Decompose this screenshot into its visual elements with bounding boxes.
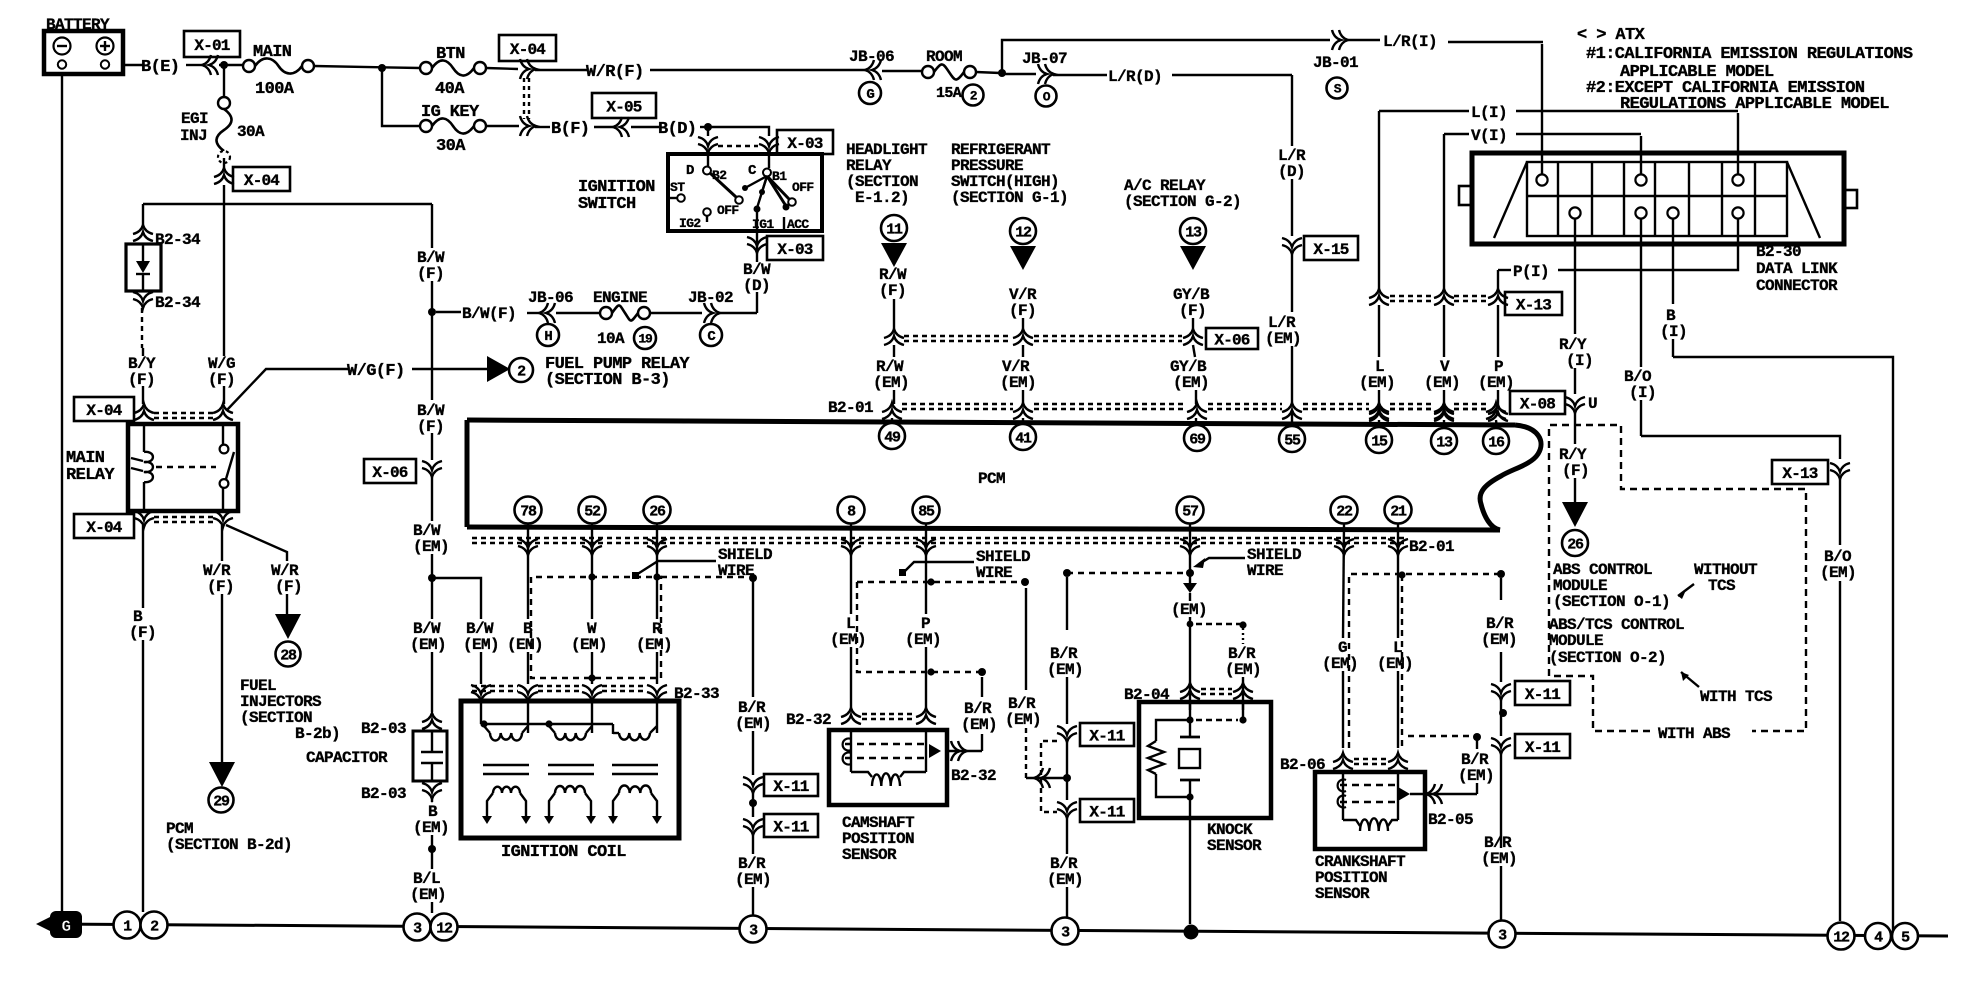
wire B/R shield drain xyxy=(752,580,754,697)
svg-text:X-04: X-04 xyxy=(86,402,122,420)
wire to B2-34 xyxy=(142,204,144,226)
wire V/R (EM) xyxy=(1022,345,1024,357)
connector B2-34 lower xyxy=(133,292,153,301)
svg-text:12: 12 xyxy=(1015,224,1032,241)
svg-text:TCS: TCS xyxy=(1708,577,1736,595)
ABS dashed boundary xyxy=(1549,425,1806,731)
rail node 4 xyxy=(1865,923,1891,949)
svg-text:28: 28 xyxy=(280,647,297,664)
svg-text:49: 49 xyxy=(884,429,901,446)
svg-text:3: 3 xyxy=(413,920,422,937)
svg-text:(EM): (EM) xyxy=(1424,374,1460,392)
svg-text:BATTERY: BATTERY xyxy=(46,16,110,34)
svg-text:X-01: X-01 xyxy=(194,37,229,55)
svg-text:X-08: X-08 xyxy=(1520,395,1555,413)
svg-text:(F): (F) xyxy=(129,624,156,642)
svg-text:X-04: X-04 xyxy=(86,519,122,537)
wire P pin85 xyxy=(925,524,927,614)
PCM pin 16 xyxy=(1483,428,1509,454)
ignition coil secondary 3 xyxy=(613,793,619,816)
svg-text:B2-03: B2-03 xyxy=(361,785,406,803)
wire B/O (EM) xyxy=(1839,478,1841,545)
svg-text:57: 57 xyxy=(1182,503,1198,520)
connector JB-02 xyxy=(650,312,702,314)
svg-text:100A: 100A xyxy=(255,80,295,99)
crankshaft sensor internals xyxy=(1342,772,1344,820)
svg-text:11: 11 xyxy=(886,221,903,238)
wire GY/B (EM) xyxy=(1193,345,1195,357)
svg-text:WITH TCS: WITH TCS xyxy=(1700,688,1773,706)
wire horizontal bus y204 xyxy=(143,203,432,205)
wire B/Y to relay xyxy=(142,386,144,404)
wire B/W to capacitor xyxy=(431,578,433,619)
svg-text:CAPACITOR: CAPACITOR xyxy=(306,749,388,767)
svg-text:(F): (F) xyxy=(128,371,155,389)
svg-text:(EM): (EM) xyxy=(1322,655,1358,673)
svg-text:(F): (F) xyxy=(1179,302,1206,320)
dlc pin bottom 3 xyxy=(1667,207,1678,218)
svg-text:X-04: X-04 xyxy=(510,41,546,59)
svg-text:PCM: PCM xyxy=(978,470,1005,488)
wire B/W(D) xyxy=(756,292,758,313)
svg-text:MODULE: MODULE xyxy=(1549,632,1603,650)
svg-text:ROOM: ROOM xyxy=(926,48,962,66)
svg-text:G: G xyxy=(61,918,70,936)
fuse BTN 40A xyxy=(420,62,432,74)
svg-text:78: 78 xyxy=(520,503,537,520)
dashed option bracket xyxy=(1041,741,1057,812)
svg-text:MAIN: MAIN xyxy=(253,43,292,62)
wire W/G(F) branch xyxy=(227,369,348,410)
svg-text:21: 21 xyxy=(1390,503,1407,520)
svg-text:(EM): (EM) xyxy=(1820,564,1856,582)
fuse MAIN 100A xyxy=(243,60,255,72)
dlc pin bottom 1 xyxy=(1569,207,1580,218)
wire B/R right chain xyxy=(1500,578,1502,600)
wire R pin26 xyxy=(656,524,658,619)
svg-text:X-11: X-11 xyxy=(1525,686,1560,704)
svg-text:B/W(F): B/W(F) xyxy=(462,305,516,323)
connector X-06 xyxy=(364,459,416,483)
relay MAIN RELAY xyxy=(128,424,238,511)
svg-text:40A: 40A xyxy=(435,80,465,99)
wire L pin8 xyxy=(850,524,852,614)
fuse ROOM 15A xyxy=(922,66,934,78)
relay coil xyxy=(143,424,145,452)
knock sensor ground wire xyxy=(1189,818,1191,924)
svg-text:WIRE: WIRE xyxy=(1247,562,1283,580)
svg-text:X-03: X-03 xyxy=(787,135,822,153)
svg-text:10A: 10A xyxy=(597,330,625,348)
battery B+ terminal block xyxy=(44,31,123,74)
wire B/W(F) right xyxy=(436,311,461,313)
svg-text:P(I): P(I) xyxy=(1513,263,1549,281)
svg-text:(EM): (EM) xyxy=(413,819,449,837)
connector B2-03 lower xyxy=(422,783,442,792)
svg-text:B2-32: B2-32 xyxy=(951,767,996,785)
svg-text:SENSOR: SENSOR xyxy=(1315,885,1370,903)
connector X-11 a xyxy=(743,777,763,786)
svg-text:B2-01: B2-01 xyxy=(1409,538,1454,556)
svg-text:4: 4 xyxy=(1874,929,1883,946)
PCM pin 69 xyxy=(1184,425,1210,451)
rail node 3a xyxy=(404,914,431,941)
svg-text:22: 22 xyxy=(1336,503,1353,520)
fuse ENGINE 10A xyxy=(600,307,612,319)
svg-text:WIRE: WIRE xyxy=(976,564,1012,582)
svg-text:W/G(F): W/G(F) xyxy=(347,362,405,381)
wire W/G xyxy=(223,204,225,356)
diode D1 xyxy=(126,244,161,291)
PCM pin 8 xyxy=(838,497,865,524)
dlc pin bottom 4 xyxy=(1732,207,1743,218)
wire B(F) to ground rail xyxy=(142,525,144,608)
svg-text:(EM): (EM) xyxy=(1000,374,1036,392)
rail junction dot xyxy=(1184,925,1199,940)
svg-text:JB-02: JB-02 xyxy=(688,289,733,307)
svg-text:JB-06: JB-06 xyxy=(849,48,894,66)
svg-text:BTN: BTN xyxy=(436,45,465,64)
wire L/R(D) down xyxy=(1291,75,1293,146)
arrow 26 ABS xyxy=(1562,502,1588,527)
svg-text:G: G xyxy=(866,87,874,103)
svg-text:EGI: EGI xyxy=(181,110,208,128)
svg-text:30A: 30A xyxy=(237,123,265,141)
svg-text:(EM): (EM) xyxy=(410,636,446,654)
dlc pin bottom 2 xyxy=(1635,207,1646,218)
svg-text:(EM): (EM) xyxy=(1005,711,1041,729)
wire V (EM) xyxy=(1443,134,1445,290)
svg-text:SWITCH: SWITCH xyxy=(578,195,636,214)
ignition coil secondary 1 xyxy=(487,793,493,816)
svg-text:(EM): (EM) xyxy=(1173,374,1209,392)
svg-text:B-2b): B-2b) xyxy=(295,725,340,743)
A/C node 13 xyxy=(1180,218,1206,244)
svg-text:(I): (I) xyxy=(1629,384,1656,402)
svg-text:X-13: X-13 xyxy=(1782,465,1817,483)
rail node 1 xyxy=(114,912,141,939)
wire L pin21 xyxy=(1397,524,1399,638)
wire L/R (EM) xyxy=(1291,252,1293,312)
connector X-04 (EGI) xyxy=(223,158,225,170)
ignition coil secondary 2 xyxy=(549,793,555,816)
svg-text:29: 29 xyxy=(213,793,230,810)
svg-text:(EM): (EM) xyxy=(413,538,449,556)
svg-text:B(D): B(D) xyxy=(658,120,696,139)
svg-text:OFF: OFF xyxy=(717,203,739,218)
svg-text:< > ATX: < > ATX xyxy=(1577,26,1646,45)
wire battery ground drop xyxy=(61,74,63,912)
labels L V P (EM) xyxy=(1378,305,1380,357)
svg-text:(F): (F) xyxy=(208,371,235,389)
connector X-11 b xyxy=(752,803,754,817)
svg-text:2: 2 xyxy=(517,363,526,380)
wire B(E) xyxy=(123,64,144,66)
svg-text:13: 13 xyxy=(1185,224,1202,241)
connector B2-01 row below PCM xyxy=(1407,539,1459,554)
relay contact dashed link xyxy=(156,466,216,468)
svg-text:69: 69 xyxy=(1189,431,1206,448)
svg-text:(EM): (EM) xyxy=(507,636,543,654)
ignition coil core 3 xyxy=(612,764,658,767)
wire B/W (EM) xyxy=(431,477,433,521)
wire V(I) xyxy=(1444,133,1469,135)
svg-text:19: 19 xyxy=(638,332,653,347)
svg-text:WIRE: WIRE xyxy=(718,562,754,580)
svg-text:15: 15 xyxy=(1371,433,1388,450)
svg-text:(EM): (EM) xyxy=(830,631,866,649)
svg-text:(EM): (EM) xyxy=(463,636,499,654)
svg-text:RELAY: RELAY xyxy=(66,466,115,485)
svg-text:1: 1 xyxy=(123,918,132,935)
svg-text:IG KEY: IG KEY xyxy=(421,103,480,122)
refrigerant node 12 xyxy=(1010,218,1036,244)
relay switch xyxy=(222,424,224,444)
svg-text:(EM): (EM) xyxy=(571,636,607,654)
wire IG KEY branch xyxy=(382,68,420,126)
rail node 3d xyxy=(1489,921,1516,948)
data link connector B2-30 xyxy=(1472,153,1844,244)
svg-text:(EM): (EM) xyxy=(1481,631,1517,649)
wire B (EM) xyxy=(431,796,433,802)
PCM pin 57 xyxy=(1177,497,1204,524)
svg-text:L/R(D): L/R(D) xyxy=(1108,68,1162,86)
svg-text:(EM): (EM) xyxy=(1359,374,1395,392)
connector X-03 upper xyxy=(698,137,718,146)
svg-text:(EM): (EM) xyxy=(1047,661,1083,679)
svg-text:X-03: X-03 xyxy=(777,241,812,259)
knock sensor internals xyxy=(1189,702,1191,720)
svg-text:ENGINE: ENGINE xyxy=(593,289,647,307)
arrow 29 PCM xyxy=(209,762,235,787)
wire W/R fuel injectors xyxy=(226,525,287,561)
svg-text:(I): (I) xyxy=(1660,323,1687,341)
svg-text:INJ: INJ xyxy=(180,127,207,145)
PCM pin 78 xyxy=(515,497,542,524)
svg-text:X-13: X-13 xyxy=(1516,296,1551,314)
wire B/R right to rail xyxy=(1500,753,1502,848)
fuse IG KEY 30A xyxy=(420,120,432,132)
svg-text:SENSOR: SENSOR xyxy=(1207,837,1262,855)
svg-text:X-06: X-06 xyxy=(372,464,407,482)
connector X-05 xyxy=(592,93,656,118)
svg-text:(F): (F) xyxy=(275,578,302,596)
wire B pin78 xyxy=(527,524,529,619)
PCM pin 21 xyxy=(1385,497,1412,524)
PCM pin 41 xyxy=(1010,424,1036,450)
svg-text:(EM): (EM) xyxy=(1171,601,1207,619)
svg-text:X-11: X-11 xyxy=(1525,739,1560,757)
svg-text:OFF: OFF xyxy=(792,180,814,195)
ignition coil core 1 xyxy=(483,764,529,767)
junction B(D) xyxy=(708,127,769,136)
wire top L/R(I) xyxy=(1002,40,1330,73)
PCM pin 52 xyxy=(579,497,606,524)
svg-text:IGNITION COIL: IGNITION COIL xyxy=(501,843,626,862)
svg-text:B(E): B(E) xyxy=(141,58,179,77)
svg-text:IG1: IG1 xyxy=(752,217,774,232)
connector row X-06 area xyxy=(884,336,904,345)
svg-text:X-05: X-05 xyxy=(606,98,641,116)
wire R/Y (F) xyxy=(1574,412,1576,444)
svg-text:DATA LINK: DATA LINK xyxy=(1756,260,1838,278)
dlc pin top 2 xyxy=(1635,174,1646,185)
ignition switch body xyxy=(668,154,822,231)
wire R/W (EM) xyxy=(893,345,895,357)
wire BTN to X-04 xyxy=(486,68,518,69)
svg-text:(EM): (EM) xyxy=(1478,374,1514,392)
wire to MAIN fuse xyxy=(219,64,243,66)
wire W pin52 xyxy=(591,524,593,577)
connector X-13 row xyxy=(1369,296,1389,305)
PCM pin 55 xyxy=(1279,426,1305,452)
svg-text:85: 85 xyxy=(918,503,935,520)
wire W/R to PCM arrow xyxy=(221,525,223,561)
PCM module box xyxy=(467,420,1515,425)
shield box ignition coil xyxy=(531,577,661,678)
svg-text:X-04: X-04 xyxy=(244,172,280,190)
connector JB-06 engine xyxy=(546,303,555,323)
svg-text:H: H xyxy=(544,329,552,345)
svg-text:(F): (F) xyxy=(417,265,444,283)
svg-text:(SECTION B-3): (SECTION B-3) xyxy=(545,371,670,390)
wire EGI to bus xyxy=(223,185,225,204)
switch C contact xyxy=(768,150,770,168)
junction dot right xyxy=(1500,699,1502,713)
rail node 5 xyxy=(1892,923,1918,949)
PCM pin 13 xyxy=(1431,428,1457,454)
rail node 3c xyxy=(1052,918,1079,945)
rail node 2 xyxy=(141,912,168,939)
svg-text:5: 5 xyxy=(1901,929,1910,946)
ignition coil feed bus xyxy=(480,701,482,724)
ignition coil primary 2 xyxy=(591,701,593,733)
svg-text:(D): (D) xyxy=(743,277,770,295)
PCM pin 85 xyxy=(913,497,940,524)
PCM pin 49 xyxy=(879,423,905,449)
svg-text:3: 3 xyxy=(1061,924,1070,941)
crank shield pointer dashes xyxy=(1349,574,1501,748)
svg-text:8: 8 xyxy=(847,503,856,520)
svg-text:X-06: X-06 xyxy=(1214,331,1249,349)
svg-text:JB-01: JB-01 xyxy=(1313,54,1358,72)
camshaft shield dashes xyxy=(857,581,1025,583)
knock B/R jog xyxy=(1189,624,1191,710)
camshaft sensor internals xyxy=(850,730,852,772)
svg-text:26: 26 xyxy=(1567,536,1584,553)
svg-text:52: 52 xyxy=(584,503,601,520)
svg-text:D: D xyxy=(686,163,694,179)
wire W/G to relay xyxy=(223,386,225,404)
crankshaft B2-05 output xyxy=(1410,793,1477,795)
svg-text:WITH ABS: WITH ABS xyxy=(1658,725,1731,743)
fuse EGI INJ 30A xyxy=(223,65,225,97)
svg-text:(F): (F) xyxy=(1009,302,1036,320)
svg-text:26: 26 xyxy=(649,503,666,520)
svg-text:(EM): (EM) xyxy=(1265,330,1301,348)
svg-text:(D): (D) xyxy=(1278,163,1305,181)
svg-text:(EM): (EM) xyxy=(1225,661,1261,679)
svg-text:(F): (F) xyxy=(1562,462,1589,480)
svg-text:15A: 15A xyxy=(936,85,962,102)
svg-text:(F): (F) xyxy=(207,578,234,596)
svg-text:3: 3 xyxy=(749,922,758,939)
svg-text:(EM): (EM) xyxy=(961,716,997,734)
wire L (EM) xyxy=(1378,111,1380,290)
svg-text:12: 12 xyxy=(436,920,453,937)
rail node 12a xyxy=(431,914,458,941)
svg-text:ACC: ACC xyxy=(787,217,809,232)
svg-text:W/R(F): W/R(F) xyxy=(586,63,644,82)
connector X-04 below relay xyxy=(74,514,134,538)
svg-text:V(I): V(I) xyxy=(1471,127,1507,145)
svg-text:12: 12 xyxy=(1833,929,1850,946)
svg-text:(SECTION G-1): (SECTION G-1) xyxy=(951,189,1068,207)
PCM pin 26 xyxy=(644,497,671,524)
svg-text:16: 16 xyxy=(1488,434,1505,451)
svg-text:JB-06: JB-06 xyxy=(528,289,573,307)
svg-text:B2-01: B2-01 xyxy=(828,399,873,417)
svg-text:B2-32: B2-32 xyxy=(786,711,831,729)
arrow 28 fuel injectors xyxy=(275,614,301,639)
connector JB-06 room xyxy=(872,60,881,80)
PCM pin 22 xyxy=(1331,497,1358,524)
switch D contact xyxy=(707,150,709,166)
svg-text:U: U xyxy=(1588,395,1597,413)
connector B2-34 upper xyxy=(133,232,153,241)
svg-text:30A: 30A xyxy=(436,137,466,156)
svg-text:(EM): (EM) xyxy=(1047,871,1083,889)
junction, X-11 f xyxy=(1066,741,1068,800)
connector X-03 lower xyxy=(747,237,767,246)
connector X-15 xyxy=(1282,238,1302,247)
svg-text:3: 3 xyxy=(1498,927,1507,944)
wire B/W coil feed branch xyxy=(432,578,481,619)
ignition coil box xyxy=(461,701,679,838)
left B/R drain to junction xyxy=(1025,588,1027,690)
svg-text:(SECTION O-2): (SECTION O-2) xyxy=(1549,649,1666,667)
svg-text:(F): (F) xyxy=(417,418,444,436)
svg-text:L(I): L(I) xyxy=(1471,104,1507,122)
ignition coil primary 1 xyxy=(527,701,529,733)
connector X-13 (B/O) xyxy=(1830,463,1850,472)
junction dot xyxy=(752,792,754,803)
svg-text:X-11: X-11 xyxy=(773,818,808,836)
capacitor C1 xyxy=(413,731,447,781)
wire B/Y dashed xyxy=(141,308,143,348)
wire MAIN to BTN xyxy=(314,66,420,68)
wire to JB-07 xyxy=(976,72,1000,73)
svg-text:L/R(I): L/R(I) xyxy=(1383,33,1437,51)
rail node 12b xyxy=(1828,923,1855,950)
wire L(I) xyxy=(1379,110,1469,112)
svg-text:(EM): (EM) xyxy=(1481,850,1517,868)
connector X-04 above relay xyxy=(74,397,134,421)
svg-text:(EM): (EM) xyxy=(636,636,672,654)
fuel pump relay feed arrow xyxy=(487,356,510,382)
svg-text:X-11: X-11 xyxy=(1089,727,1124,745)
wire B/W down to X-06 xyxy=(431,312,433,400)
svg-text:55: 55 xyxy=(1284,432,1301,449)
svg-text:B2-05: B2-05 xyxy=(1428,811,1473,829)
svg-text:X-11: X-11 xyxy=(773,778,808,796)
svg-text:CONNECTOR: CONNECTOR xyxy=(1756,277,1838,295)
svg-text:C: C xyxy=(748,163,757,179)
svg-text:JB-07: JB-07 xyxy=(1022,50,1067,68)
wire B/W(F) down xyxy=(431,204,433,248)
svg-text:(F): (F) xyxy=(879,282,906,300)
svg-text:(SECTION G-2): (SECTION G-2) xyxy=(1124,193,1241,211)
